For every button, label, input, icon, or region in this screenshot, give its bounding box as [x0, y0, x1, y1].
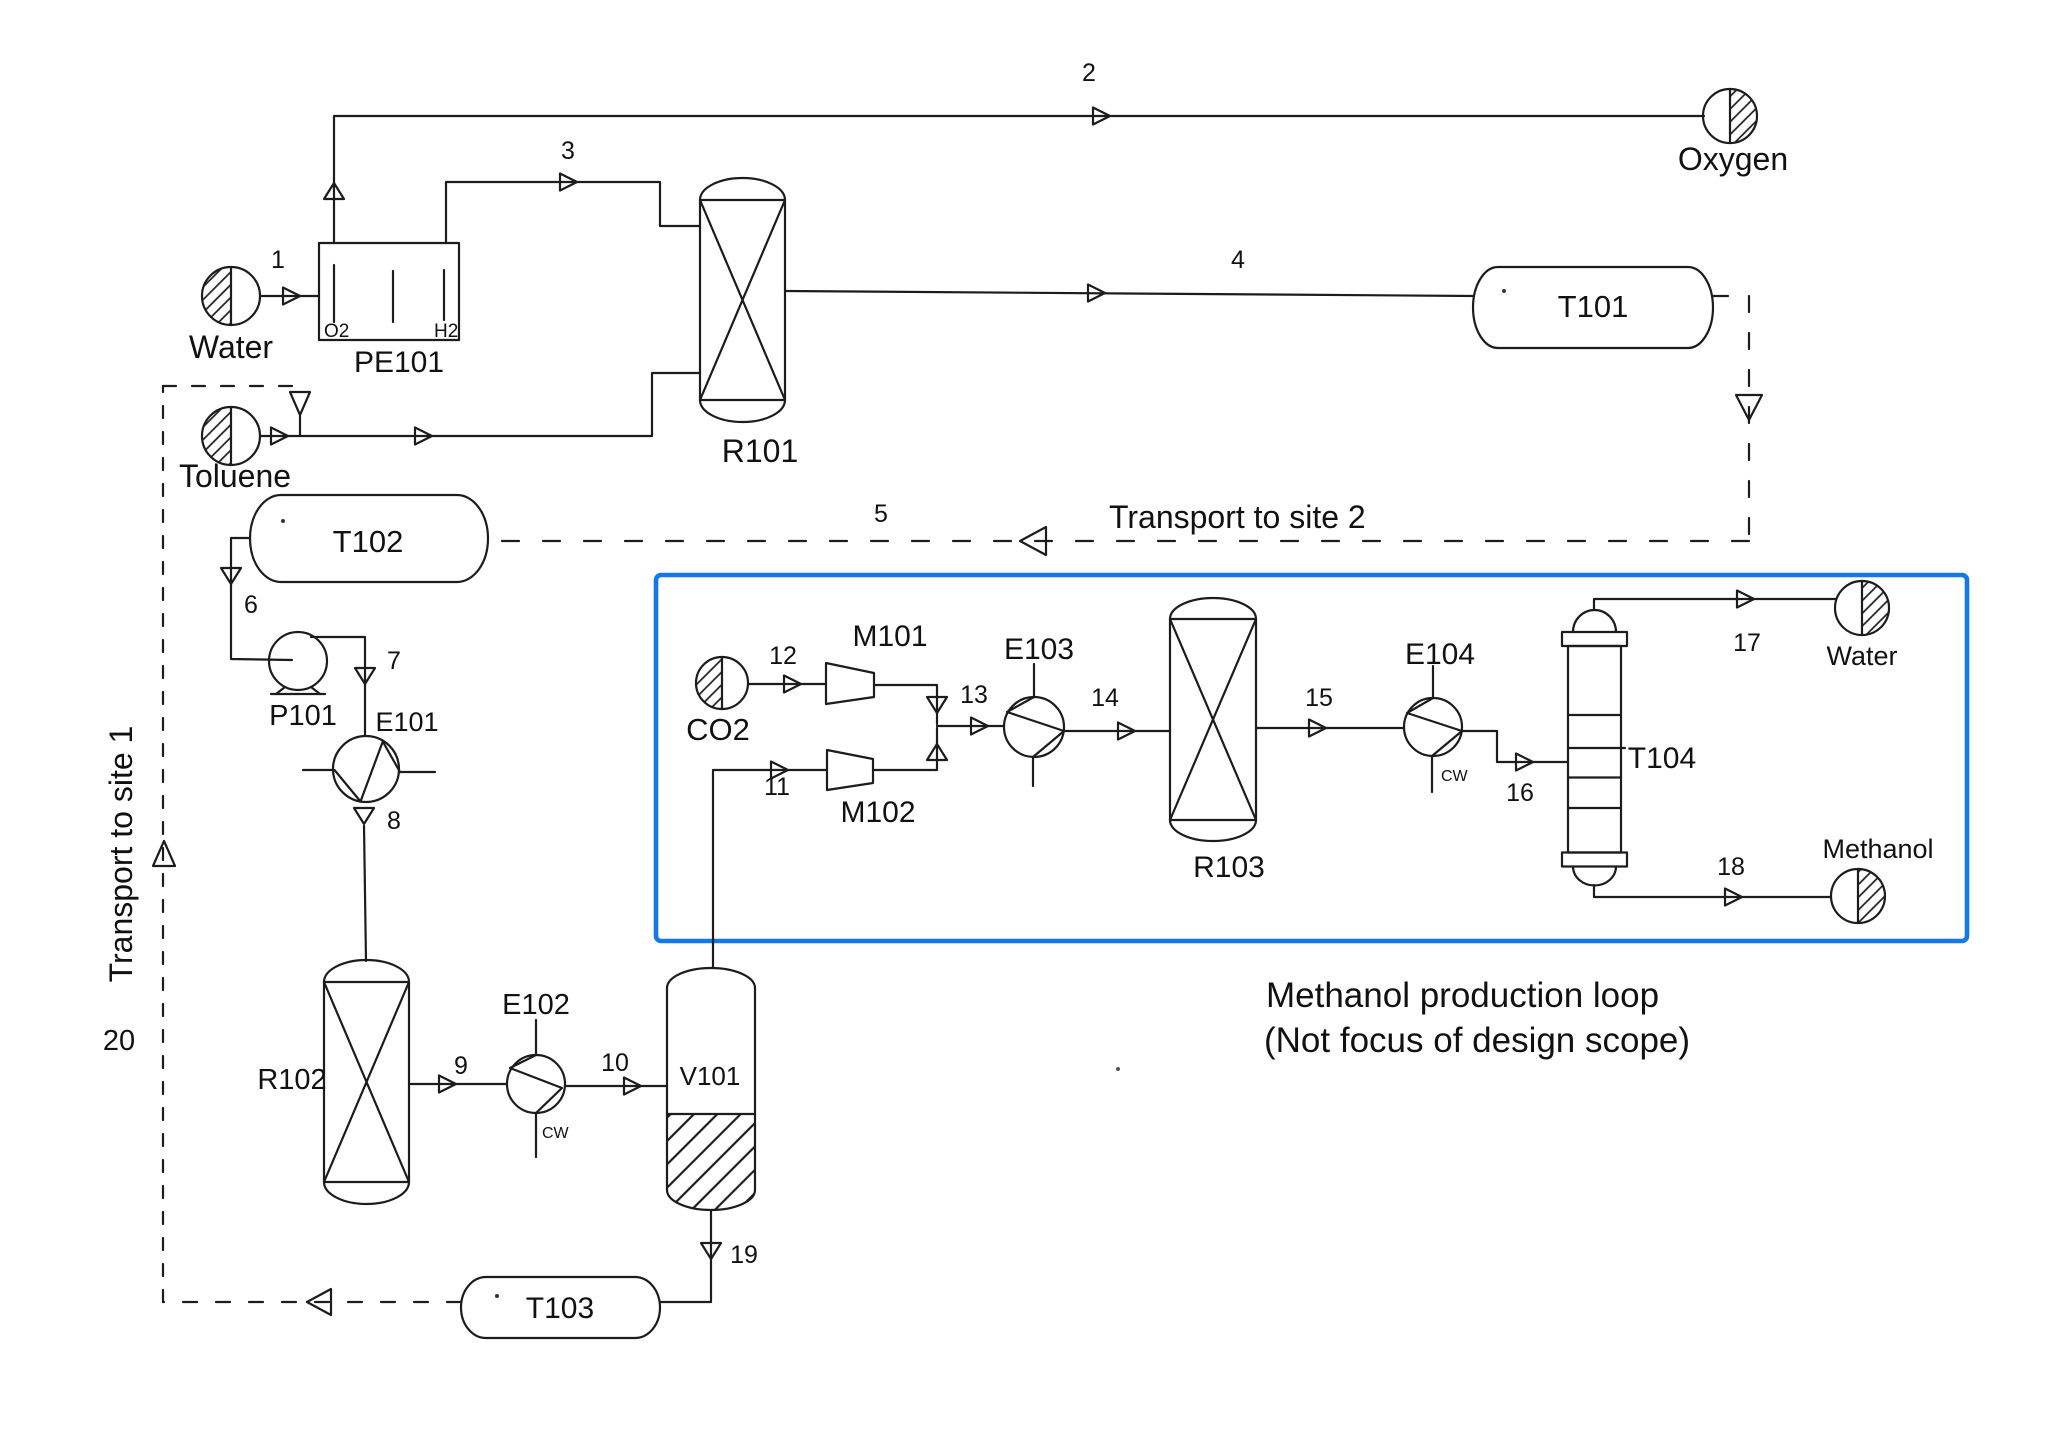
svg-text:10: 10: [601, 1049, 629, 1077]
svg-text:E104: E104: [1405, 638, 1475, 671]
svg-text:4: 4: [1231, 246, 1245, 274]
svg-text:T101: T101: [1558, 289, 1629, 324]
svg-text:18: 18: [1717, 853, 1745, 881]
wire M101 outlet to mix junction: [874, 685, 947, 724]
svg-text:E102: E102: [502, 989, 570, 1021]
svg-text:CO2: CO2: [686, 712, 750, 747]
svg-text:9: 9: [454, 1052, 468, 1080]
svg-text:14: 14: [1091, 684, 1119, 712]
svg-text:T102: T102: [333, 524, 404, 559]
pump P101: [269, 632, 337, 732]
svg-text:Transport to site 1: Transport to site 1: [103, 726, 139, 983]
column T104 (distillation column with trays): [1562, 610, 1696, 886]
sink Water (right-half hatched circle): [1826, 581, 1897, 671]
svg-text:CW: CW: [542, 1125, 570, 1142]
stream 12 (CO2 to M101): [748, 642, 826, 693]
stream 4 (R101 to T101): [785, 246, 1474, 302]
svg-text:15: 15: [1305, 684, 1333, 712]
svg-text:20: 20: [103, 1025, 135, 1057]
svg-text:E103: E103: [1004, 633, 1074, 666]
svg-text:R101: R101: [722, 433, 799, 469]
source CO2 (left-half hatched circle): [686, 657, 750, 747]
wire Toluene feed to R101 lower inlet: [260, 373, 700, 445]
stream 20 dashed (T103 transport to site 1, recycle to Toluene feed): [103, 386, 461, 1315]
source Water (feed, left-half hatched circle): [189, 267, 274, 365]
stream 10 (E102 to V101): [565, 1049, 667, 1095]
stream 13 (mixed feed to E103): [937, 681, 1004, 735]
svg-text:13: 13: [960, 681, 988, 709]
heat exchanger E102 (cooler, CW): [502, 989, 570, 1157]
heat exchanger E103: [1004, 633, 1074, 786]
svg-text:T104: T104: [1628, 742, 1696, 775]
svg-text:PE101: PE101: [354, 346, 444, 379]
svg-text:E101: E101: [375, 707, 438, 737]
sink Methanol (right-half hatched circle): [1822, 834, 1933, 923]
stream 18 (T104 bottoms to Methanol sink): [1594, 853, 1831, 906]
separator V101 (flash drum with liquid holdup): [667, 968, 755, 1210]
heat exchanger E104 (cooler, CW): [1404, 638, 1475, 792]
stream 17 (T104 overhead to Water sink): [1594, 591, 1836, 658]
caption: methanol loop note: [1116, 976, 1690, 1071]
stream 5 dashed (T101 transport to site 2, to T102): [488, 296, 1762, 555]
tank T102 (horizontal storage tank): [250, 495, 488, 582]
stream 19 (V101 bottoms to T103): [660, 1210, 758, 1302]
svg-text:Water: Water: [189, 329, 274, 365]
svg-text:Toluene: Toluene: [179, 458, 291, 494]
compressor M101: [826, 620, 928, 704]
svg-text:19: 19: [730, 1241, 758, 1269]
svg-text:7: 7: [387, 647, 401, 675]
svg-text:Transport to site 2: Transport to site 2: [1109, 499, 1366, 535]
sink Oxygen (right-half hatched circle): [1678, 89, 1788, 177]
svg-text:M102: M102: [840, 796, 915, 829]
stream 11 (recycle from V101 to M102): [713, 762, 827, 969]
svg-text:P101: P101: [269, 700, 337, 732]
stream 9 (R102 to E102): [409, 1052, 507, 1093]
svg-text:T103: T103: [526, 1292, 594, 1325]
stream 2 (O2 from PE101 to Oxygen sink): [324, 59, 1704, 243]
reactor R103 (packed-bed vessel): [1170, 598, 1265, 884]
stream 15 (R103 to E104): [1256, 684, 1404, 737]
reactor R102 (packed-bed vessel): [257, 960, 409, 1204]
stream 14 (E103 to R103): [1064, 684, 1170, 740]
svg-text:8: 8: [387, 807, 401, 835]
svg-text:V101: V101: [680, 1061, 741, 1091]
methanol production loop boundary (blue box): [656, 575, 1967, 941]
svg-text:1: 1: [271, 246, 285, 274]
svg-text:12: 12: [769, 642, 797, 670]
stream 1 (Water to PE101): [260, 246, 319, 305]
wire M102 outlet to mix junction: [873, 728, 947, 770]
svg-text:Methanol production loop: Methanol production loop: [1266, 976, 1659, 1015]
stream 8 (E101 to R102): [354, 807, 401, 961]
svg-text:3: 3: [561, 137, 575, 165]
svg-text:(Not focus of design scope): (Not focus of design scope): [1264, 1021, 1690, 1060]
svg-text:M101: M101: [852, 620, 927, 653]
svg-text:17: 17: [1733, 629, 1761, 657]
stream 3 (H2 from PE101 to R101): [446, 137, 700, 243]
electrolyzer PE101: [319, 243, 459, 379]
tank T103 (horizontal storage tank): [461, 1277, 660, 1338]
reactor R101 (packed-bed vessel): [700, 178, 798, 469]
stream 7 (P101 to E101): [311, 637, 401, 736]
source Toluene (left-half hatched circle): [179, 407, 291, 494]
svg-text:H2: H2: [434, 321, 458, 342]
svg-text:2: 2: [1082, 59, 1096, 87]
compressor M102: [827, 750, 916, 829]
heat exchanger E101: [303, 707, 439, 802]
svg-text:R103: R103: [1193, 851, 1265, 884]
svg-text:16: 16: [1506, 779, 1534, 807]
svg-text:11: 11: [764, 773, 790, 801]
svg-text:6: 6: [244, 591, 258, 619]
svg-text:Oxygen: Oxygen: [1678, 141, 1788, 177]
svg-text:Water: Water: [1826, 641, 1897, 671]
svg-text:5: 5: [874, 500, 888, 528]
svg-text:O2: O2: [324, 321, 349, 342]
stream 6 (T102 to P101): [221, 538, 292, 660]
stream 16 (E104 to T104): [1462, 731, 1568, 807]
svg-text:R102: R102: [257, 1064, 326, 1096]
tank T101 (horizontal storage tank): [1473, 267, 1713, 348]
svg-text:CW: CW: [1441, 768, 1469, 785]
svg-text:Methanol: Methanol: [1822, 834, 1933, 864]
